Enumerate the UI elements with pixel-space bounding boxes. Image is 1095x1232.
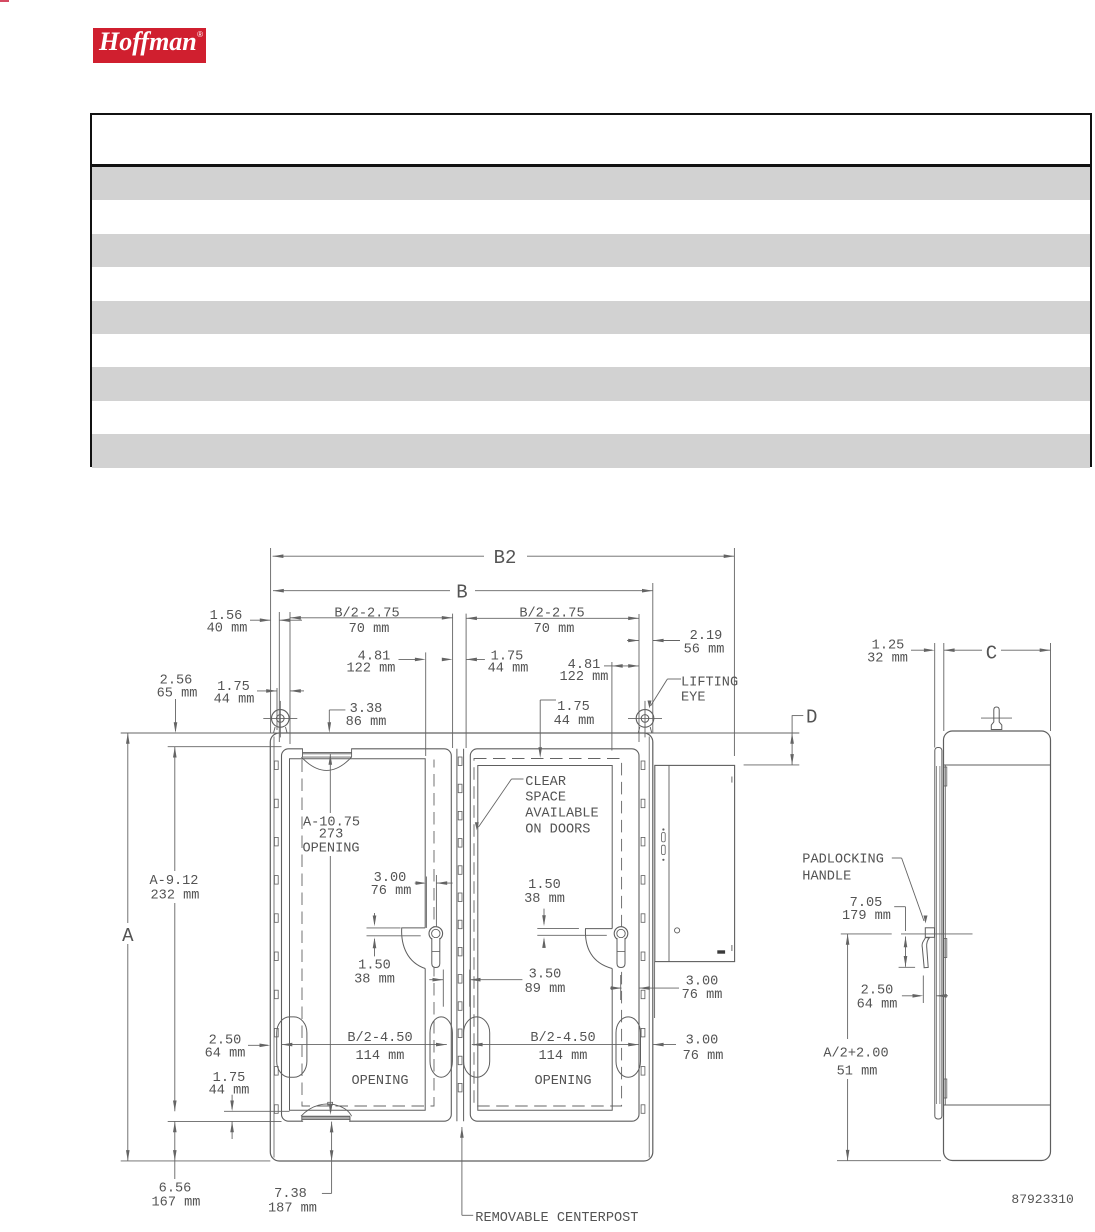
red corner mark [0,0,9,2]
dimension 1.75 44mm bottom left [209,1071,250,1139]
handle centerline [841,933,973,935]
svg-text:44 mm: 44 mm [209,1084,250,1099]
dimension 1.50 38mm left door [354,913,421,988]
dimension A [122,733,134,1161]
padlocking handle label [802,853,927,924]
right door right latch bump [616,1017,641,1077]
dimension 1.50 38mm right door [524,878,607,948]
dimension 2.50 64mm bottom left [205,1034,271,1062]
side view body outline [944,731,1051,1161]
svg-text:B/2-2.75: B/2-2.75 [334,607,399,622]
left door opening rect [290,759,426,1111]
dimension C [944,643,1051,732]
svg-text:B/2-4.50: B/2-4.50 [530,1031,595,1046]
dimension 7.05 179mm [842,896,915,967]
svg-text:2.50: 2.50 [861,984,894,999]
left lifting eye [263,701,297,738]
svg-text:44 mm: 44 mm [214,693,255,708]
svg-text:ON DOORS: ON DOORS [525,823,590,838]
dimension A/2+2.00 51mm [823,934,941,1161]
svg-text:38 mm: 38 mm [354,973,395,988]
svg-text:A-9.12: A-9.12 [150,874,199,889]
Hoffman logo [93,28,206,63]
svg-text:70 mm: 70 mm [349,622,390,637]
left door bottom vent [301,1102,352,1123]
svg-text:76 mm: 76 mm [371,884,412,899]
svg-text:76 mm: 76 mm [683,1049,724,1064]
svg-text:44 mm: 44 mm [554,714,595,729]
side view lifting eye [981,707,1012,730]
dimension B/2-2.75 70mm left [290,607,453,748]
svg-text:187 mm: 187 mm [268,1202,317,1217]
door bottom reference lines [121,1111,290,1161]
right lifting eye [628,701,662,738]
right door handle [614,927,628,968]
svg-text:64 mm: 64 mm [205,1047,246,1062]
svg-text:B/2-2.75: B/2-2.75 [519,607,584,622]
left door top vent [301,747,351,771]
svg-text:1.50: 1.50 [358,959,391,974]
part number [1011,1192,1073,1207]
svg-text:44 mm: 44 mm [488,662,529,677]
svg-text:D: D [806,706,817,728]
svg-text:38 mm: 38 mm [524,892,565,907]
svg-text:122 mm: 122 mm [560,670,609,685]
svg-text:A: A [122,925,134,947]
svg-text:114 mm: 114 mm [539,1049,588,1064]
dimension 3.00 76mm left door handle [371,871,453,928]
svg-text:64 mm: 64 mm [857,998,898,1013]
svg-text:232 mm: 232 mm [151,889,200,904]
dimension 4.81 122mm right [560,658,639,751]
right door left latch bump [464,1017,490,1077]
svg-text:CLEAR: CLEAR [525,775,566,790]
svg-text:1.50: 1.50 [528,878,561,893]
svg-text:86 mm: 86 mm [346,715,387,730]
dimension 3.50 89mm [429,968,565,1007]
svg-text:76 mm: 76 mm [682,988,723,1003]
dimension 1.56 40mm [207,609,302,637]
dimension 4.81 122mm left [347,650,453,757]
dimension 2.19 56mm [627,629,724,658]
dimension B/2-4.50 114mm right [472,1031,639,1089]
left door handle [429,927,443,968]
svg-text:87923310: 87923310 [1011,1192,1073,1207]
dimension 2.50 64mm side [857,984,948,1013]
svg-text:SPACE: SPACE [525,791,566,806]
svg-text:LIFTING: LIFTING [681,676,738,691]
dimension 7.38 187mm [268,1122,333,1217]
right door clear-space dashed rect [474,759,622,1107]
left door right latch bump [430,1017,452,1077]
svg-text:122 mm: 122 mm [347,662,396,677]
right door opening rect [478,766,612,1111]
svg-text:32 mm: 32 mm [867,652,908,667]
svg-text:PADLOCKING: PADLOCKING [802,853,884,868]
side view door panel [935,748,942,1120]
dimension 1.75 44mm center [466,650,528,677]
svg-text:6.56: 6.56 [159,1182,192,1197]
svg-text:114 mm: 114 mm [356,1049,405,1064]
svg-text:EYE: EYE [681,691,705,706]
dimension 1.25 32mm [867,639,935,748]
svg-text:OPENING: OPENING [302,842,359,857]
dimension 3.38 86mm leader [328,702,387,733]
svg-text:3.50: 3.50 [529,968,562,983]
svg-text:REMOVABLE CENTERPOST: REMOVABLE CENTERPOST [475,1211,638,1226]
svg-text:70 mm: 70 mm [534,622,575,637]
svg-text:179 mm: 179 mm [842,909,891,924]
svg-text:7.38: 7.38 [274,1187,307,1202]
dimension 1.75 44mm right door top leader [538,700,594,758]
svg-text:51 mm: 51 mm [837,1065,878,1080]
svg-text:B: B [456,582,467,604]
svg-text:OPENING: OPENING [534,1074,591,1089]
removable centerpost label [460,1127,638,1226]
left door outline [282,749,452,1121]
svg-text:273: 273 [319,828,343,843]
svg-text:40 mm: 40 mm [207,622,248,637]
svg-text:65 mm: 65 mm [157,687,198,702]
left door clear-space dashed rect [302,760,434,1107]
svg-text:89 mm: 89 mm [525,982,566,997]
svg-text:HANDLE: HANDLE [802,870,851,885]
left door hinge marks [274,761,278,1113]
dimension 3.00 76mm panel bottom [610,962,722,1018]
dimension B/2-4.50 114mm left [282,1031,447,1089]
svg-text:167 mm: 167 mm [152,1196,201,1211]
removable centerpost [457,749,464,1121]
dimension 2.56 65mm [157,674,198,734]
dimension D [744,706,818,765]
svg-text:B/2-4.50: B/2-4.50 [347,1031,412,1046]
dimension B2 [271,547,735,756]
svg-text:OPENING: OPENING [351,1074,408,1089]
svg-text:3.00: 3.00 [686,1034,719,1049]
svg-text:B2: B2 [494,547,517,569]
dimension B/2-2.75 70mm right [466,607,639,748]
door top reference line [168,746,282,748]
dimension B [273,582,653,734]
right door outline [470,749,639,1121]
svg-text:1.75: 1.75 [557,700,590,715]
body top reference line [121,732,800,734]
specifications table [90,113,1092,467]
svg-text:AVAILABLE: AVAILABLE [525,806,598,821]
svg-text:C: C [986,643,997,665]
mounting panel view [655,765,735,961]
side view hinge marks [944,767,947,1098]
svg-text:A/2+2.00: A/2+2.00 [823,1047,888,1062]
label A-10.75 273 OPENING [302,754,360,1115]
left door left latch bump [277,1017,307,1077]
enclosure body outline (front view) [270,733,653,1161]
side view handle [922,928,934,1003]
clear space label [475,775,599,838]
dimension A-9.12 232mm [150,747,200,1112]
dimension 3.00 76mm bottom right [653,1034,724,1065]
svg-text:56 mm: 56 mm [684,643,725,658]
lifting eye label [648,676,739,709]
dimension 6.56 167mm [152,1121,201,1210]
right door hinge marks [641,761,645,1113]
dimension 1.75 44mm hinge left [214,612,304,742]
